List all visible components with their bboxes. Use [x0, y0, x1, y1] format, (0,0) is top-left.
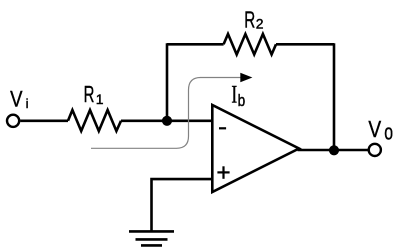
- svg-text:R: R: [84, 81, 95, 107]
- svg-text:i: i: [26, 96, 29, 111]
- terminal Vo: [369, 144, 381, 156]
- svg-text:V: V: [368, 116, 381, 142]
- label Ib: [231, 82, 245, 110]
- wire feedback top left: [167, 43, 224, 46]
- label R1: [84, 81, 104, 107]
- resistor R2: [224, 34, 276, 55]
- label Vi: [10, 87, 29, 112]
- svg-text:V: V: [10, 87, 23, 112]
- wire op-amp output: [298, 149, 369, 152]
- svg-text:o: o: [384, 119, 393, 144]
- svg-text:b: b: [238, 91, 246, 110]
- current arrow Ib curve: [91, 78, 241, 149]
- svg-text:I: I: [231, 82, 237, 109]
- resistor R1: [68, 110, 121, 131]
- node A junction dot: [162, 116, 172, 126]
- wire R1 to op-amp inverting input: [121, 120, 212, 123]
- label R2: [244, 7, 264, 33]
- svg-text:R: R: [244, 7, 255, 33]
- wire feedback top right: [276, 43, 334, 46]
- svg-text:2: 2: [256, 16, 264, 32]
- output node junction dot: [329, 145, 339, 155]
- wire node A up to feedback: [166, 43, 169, 121]
- op-amp minus sign: [219, 127, 226, 129]
- terminal Vi: [7, 115, 19, 127]
- op-amp U1 triangle: [212, 105, 299, 192]
- svg-text:1: 1: [96, 91, 104, 107]
- label Vo: [368, 116, 393, 144]
- ground: [129, 231, 174, 245]
- wire feedback down to output node: [333, 43, 336, 150]
- wire Vi to R1: [20, 120, 68, 123]
- current arrow Ib head: [240, 73, 252, 83]
- wire non-inverting input to ground: [152, 179, 213, 231]
- op-amp plus sign: [217, 166, 229, 179]
